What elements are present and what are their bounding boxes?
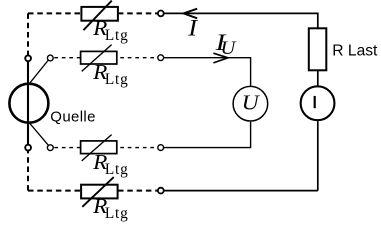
svg-text:U: U	[242, 90, 261, 114]
wire dashed thick row4 right part	[118, 190, 158, 192]
wire solid source vertical	[27, 61, 29, 144]
terminal node left upper main	[25, 55, 31, 61]
resistor R_Ltg row3	[81, 135, 117, 161]
wire dashed thick left vertical upper	[27, 13, 29, 55]
source circle Quelle	[9, 84, 48, 123]
resistor R_Ltg row1	[81, 1, 118, 31]
ammeter A1 circle	[301, 86, 335, 120]
svg-text:I: I	[187, 15, 198, 40]
svg-text:Quelle: Quelle	[50, 108, 95, 125]
terminal node left lower sense	[47, 145, 53, 151]
arrow current I_U pointing right	[213, 53, 228, 63]
svg-text:U: U	[221, 38, 237, 59]
ammeter A1 needle bar	[314, 96, 316, 108]
terminal node row3 right	[158, 145, 164, 151]
wire solid row4 bottom	[164, 190, 318, 192]
svg-text:Ltg: Ltg	[105, 161, 129, 178]
terminal node row4 right	[158, 188, 164, 194]
resistor R_Ltg row4	[81, 177, 118, 207]
wire solid row2 to voltmeter	[164, 58, 251, 86]
voltmeter U1 circle	[233, 86, 268, 121]
wire diagonal tap upper	[29, 60, 49, 84]
arrow current I pointing left	[184, 9, 198, 19]
wire dashed thick row1 right part	[118, 12, 158, 14]
wire solid row3 to voltmeter	[164, 122, 251, 148]
resistor R Last	[309, 28, 327, 70]
wire dashed thick row4 left part	[28, 190, 81, 192]
terminal node left lower main	[25, 145, 31, 151]
resistor R_Ltg row2	[81, 45, 117, 72]
wire right vertical RLast to ammeter	[317, 70, 319, 85]
svg-text:Ltg: Ltg	[105, 205, 129, 222]
svg-text:Ltg: Ltg	[105, 27, 129, 44]
wire dashed thin row2 left	[53, 57, 80, 59]
svg-text:R Last: R Last	[332, 43, 378, 60]
terminal node row1 right	[158, 11, 164, 17]
wire dashed thin row3 right	[117, 147, 158, 149]
wire diagonal tap lower	[29, 122, 49, 145]
wire dashed thick top-left horizontal	[28, 12, 81, 14]
wire right vertical ammeter to bottom corner	[317, 121, 319, 190]
svg-text:Ltg: Ltg	[105, 71, 129, 88]
wire dashed thin row3 left	[53, 147, 80, 149]
terminal node row2 right	[158, 55, 164, 61]
wire dashed thin row2 right	[117, 57, 158, 59]
wire dashed thick left vertical lower	[27, 151, 29, 191]
terminal node left upper sense	[47, 55, 53, 61]
wire solid row1 to top-right corner	[164, 13, 318, 28]
